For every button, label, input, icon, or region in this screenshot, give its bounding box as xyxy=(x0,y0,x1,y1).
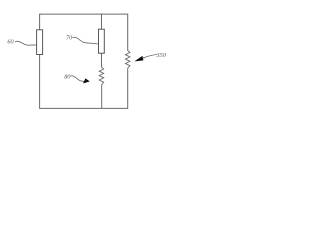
svg-text:350: 350 xyxy=(156,52,167,59)
svg-text:70: 70 xyxy=(66,34,73,41)
svg-text:80: 80 xyxy=(64,73,71,80)
svg-text:60: 60 xyxy=(7,38,14,45)
